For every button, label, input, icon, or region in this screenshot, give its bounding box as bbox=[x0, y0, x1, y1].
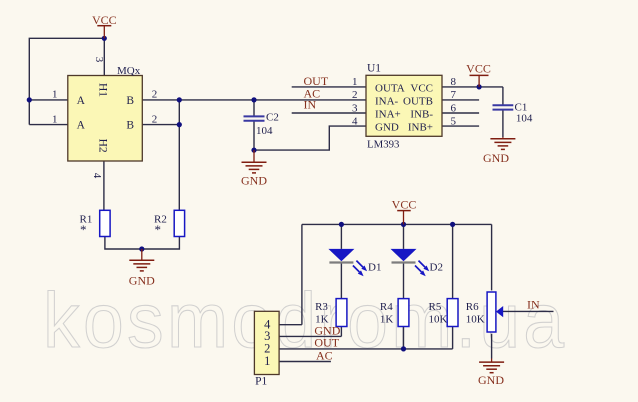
svg-text:C2: C2 bbox=[266, 112, 279, 124]
svg-text:U1: U1 bbox=[367, 63, 381, 75]
svg-text:INA+: INA+ bbox=[375, 109, 401, 121]
svg-text:10K: 10K bbox=[466, 314, 485, 326]
svg-text:B: B bbox=[126, 120, 134, 132]
svg-text:INB-: INB- bbox=[410, 109, 433, 121]
svg-text:LM393: LM393 bbox=[367, 139, 399, 151]
svg-text:4: 4 bbox=[352, 115, 358, 127]
svg-text:VCC: VCC bbox=[466, 61, 491, 75]
svg-text:INB+: INB+ bbox=[408, 122, 433, 134]
svg-text:1: 1 bbox=[264, 354, 270, 368]
svg-text:2: 2 bbox=[152, 113, 158, 125]
svg-text:1: 1 bbox=[52, 89, 58, 101]
svg-text:104: 104 bbox=[516, 112, 533, 124]
svg-text:6: 6 bbox=[451, 102, 457, 114]
svg-text:A: A bbox=[77, 120, 86, 132]
svg-text:D2: D2 bbox=[430, 262, 443, 274]
svg-text:1: 1 bbox=[352, 76, 358, 88]
svg-text:10K: 10K bbox=[429, 314, 448, 326]
svg-text:VCC: VCC bbox=[92, 13, 117, 27]
svg-text:D1: D1 bbox=[368, 262, 381, 274]
svg-text:4: 4 bbox=[91, 173, 103, 179]
svg-text:MQx: MQx bbox=[117, 65, 141, 77]
svg-text:H2: H2 bbox=[97, 139, 109, 153]
svg-text:R4: R4 bbox=[380, 301, 393, 313]
svg-text:8: 8 bbox=[451, 76, 457, 88]
svg-text:IN: IN bbox=[304, 97, 317, 111]
svg-text:1K: 1K bbox=[380, 314, 394, 326]
svg-text:VCC: VCC bbox=[392, 198, 417, 212]
svg-text:R3: R3 bbox=[315, 301, 328, 313]
svg-text:1K: 1K bbox=[315, 314, 329, 326]
svg-text:3: 3 bbox=[352, 102, 358, 114]
svg-text:GND: GND bbox=[375, 122, 399, 134]
svg-text:*: * bbox=[80, 222, 87, 237]
svg-text:AC: AC bbox=[316, 348, 333, 362]
svg-text:5: 5 bbox=[451, 115, 457, 127]
svg-text:*: * bbox=[155, 222, 162, 237]
svg-text:OUTA: OUTA bbox=[375, 82, 405, 94]
svg-text:GND: GND bbox=[483, 151, 509, 165]
svg-text:IN: IN bbox=[527, 297, 540, 311]
svg-text:R5: R5 bbox=[429, 301, 442, 313]
svg-text:2: 2 bbox=[352, 89, 358, 101]
svg-text:VCC: VCC bbox=[410, 82, 433, 94]
svg-text:B: B bbox=[126, 95, 134, 107]
svg-text:GND: GND bbox=[478, 373, 504, 387]
svg-text:R6: R6 bbox=[466, 301, 479, 313]
svg-text:INA-: INA- bbox=[375, 95, 399, 107]
svg-text:P1: P1 bbox=[255, 375, 267, 387]
svg-text:3: 3 bbox=[93, 57, 105, 63]
svg-text:2: 2 bbox=[152, 89, 158, 101]
svg-text:1: 1 bbox=[52, 113, 58, 125]
svg-text:A: A bbox=[77, 95, 86, 107]
svg-text:H1: H1 bbox=[97, 83, 109, 97]
svg-text:7: 7 bbox=[451, 89, 457, 101]
svg-text:104: 104 bbox=[256, 125, 273, 137]
svg-text:GND: GND bbox=[241, 173, 267, 187]
svg-text:OUTB: OUTB bbox=[403, 95, 433, 107]
svg-text:GND: GND bbox=[129, 273, 155, 287]
